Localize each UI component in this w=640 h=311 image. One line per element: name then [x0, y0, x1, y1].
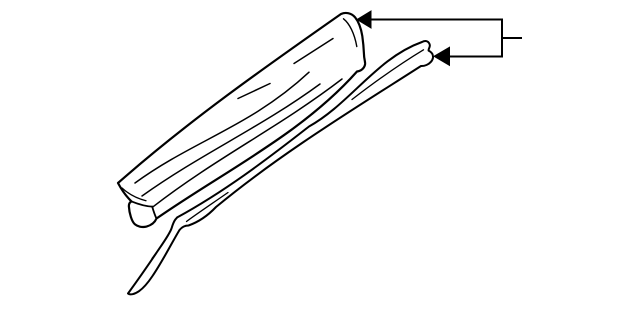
arrowhead 2 — [434, 47, 450, 65]
strip interior crease line (upper segment) — [352, 50, 424, 100]
molding left end rim line — [122, 188, 146, 201]
molding hook inner edge — [152, 207, 156, 219]
wire: arrow2 to bracket — [448, 56, 502, 58]
molding face dash 1 — [238, 84, 270, 99]
wire: stub right — [502, 37, 522, 39]
wire: bracket vertical — [501, 19, 503, 58]
part: windshield drip molding strip (lower) outline — [128, 41, 433, 294]
molding contour line 3 — [153, 79, 342, 207]
part: pillar garnish molding (upper) outline — [118, 13, 365, 227]
leader lines — [368, 19, 522, 58]
molding cap face line — [344, 19, 357, 47]
wire: arrow1 to bracket — [368, 19, 502, 21]
strip interior crease line (neck segment) — [187, 193, 229, 222]
molding contour line 1 — [135, 72, 309, 183]
arrowhead 1 — [357, 11, 371, 28]
molding contour line 2 — [142, 84, 320, 196]
molding fold top line — [132, 201, 153, 206]
strip tail interior line — [152, 237, 168, 259]
molding face dash 2 — [294, 39, 333, 64]
